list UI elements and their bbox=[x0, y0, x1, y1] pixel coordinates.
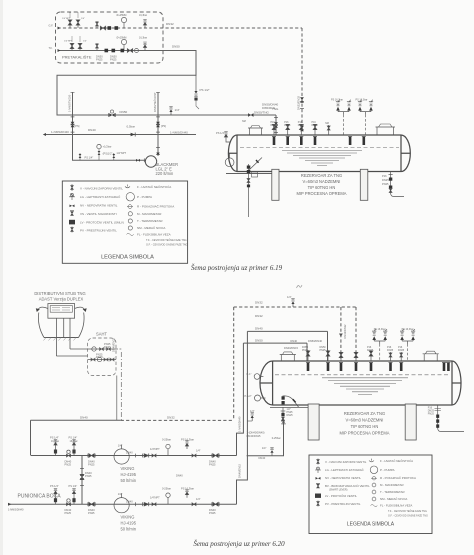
svg-text:(PS)1/2": (PS)1/2" bbox=[103, 152, 113, 156]
svg-text:1/4": 1/4" bbox=[262, 446, 267, 450]
svg-text:0-25bar: 0-25bar bbox=[162, 438, 171, 442]
svg-text:PS 1/4": PS 1/4" bbox=[85, 156, 94, 160]
svg-text:PS 1/4": PS 1/4" bbox=[69, 436, 78, 440]
svg-text:NM: NM bbox=[325, 122, 329, 125]
svg-text:Šema postrojenja uz primer 6.1: Šema postrojenja uz primer 6.19 bbox=[191, 264, 283, 272]
svg-text:VIKING: VIKING bbox=[121, 466, 135, 471]
svg-text:1-NMS/DN40: 1-NMS/DN40 bbox=[8, 508, 24, 512]
svg-text:DN25: DN25 bbox=[367, 349, 374, 352]
svg-text:PN25: PN25 bbox=[209, 463, 216, 467]
svg-text:PN25: PN25 bbox=[85, 474, 92, 478]
svg-text:DN40/DN32: DN40/DN32 bbox=[112, 337, 116, 352]
svg-text:PS 16,3bar: PS 16,3bar bbox=[181, 438, 194, 442]
svg-text:1-NMS/TNG50: 1-NMS/TNG50 bbox=[68, 94, 72, 112]
svg-text:1/4"NPT: 1/4"NPT bbox=[64, 41, 73, 43]
svg-text:1-NMS/DN40: 1-NMS/DN40 bbox=[170, 131, 188, 135]
svg-text:DN25: DN25 bbox=[382, 178, 389, 182]
svg-text:M - MANOMETAR: M - MANOMETAR bbox=[137, 212, 162, 216]
svg-text:PS 1/4": PS 1/4" bbox=[69, 484, 78, 488]
svg-text:+1/2bar: +1/2bar bbox=[103, 145, 112, 149]
svg-text:PRETAKALIŠTE: PRETAKALIŠTE bbox=[62, 55, 92, 60]
svg-text:1/4": 1/4" bbox=[250, 409, 255, 413]
svg-text:LEGENDA SIMBOLA: LEGENDA SIMBOLA bbox=[101, 254, 154, 260]
svg-text:1-NMS/DN40: 1-NMS/DN40 bbox=[238, 416, 242, 432]
svg-text:DN40: DN40 bbox=[80, 415, 88, 419]
svg-text:DN40/DN15: DN40/DN15 bbox=[284, 346, 299, 350]
svg-text:DN40: DN40 bbox=[255, 327, 263, 331]
svg-text:[PS]: [PS] bbox=[161, 124, 166, 128]
svg-text:PS 16,3bar: PS 16,3bar bbox=[356, 99, 368, 102]
svg-text:(SMART LEVER): (SMART LEVER) bbox=[329, 488, 348, 491]
svg-text:16,3bar: 16,3bar bbox=[139, 14, 147, 17]
svg-text:50 lt/min: 50 lt/min bbox=[121, 527, 137, 532]
svg-text:NV - NEPOVRATNI VENTIL: NV - NEPOVRATNI VENTIL bbox=[80, 203, 118, 207]
svg-text:NV - NEPOVRATNI VENTIL: NV - NEPOVRATNI VENTIL bbox=[325, 476, 361, 480]
svg-text:DN25: DN25 bbox=[284, 124, 291, 127]
svg-text:F - HVATAČ NEČISTOĆA: F - HVATAČ NEČISTOĆA bbox=[137, 184, 171, 189]
svg-text:[PS]: [PS] bbox=[75, 124, 80, 128]
svg-text:PV - PRESTRUJNI VENTIL: PV - PRESTRUJNI VENTIL bbox=[325, 502, 361, 506]
svg-text:DN25: DN25 bbox=[287, 414, 294, 417]
svg-text:220 lt/min: 220 lt/min bbox=[156, 171, 174, 176]
svg-text:DN40: DN40 bbox=[290, 339, 297, 343]
svg-text:DN40: DN40 bbox=[126, 451, 133, 455]
svg-text:DN50/DN40: DN50/DN40 bbox=[308, 339, 323, 343]
svg-text:1/4": 1/4" bbox=[196, 449, 201, 453]
svg-text:DN25: DN25 bbox=[96, 355, 103, 359]
svg-text:DN32/DN32: DN32/DN32 bbox=[296, 95, 300, 110]
svg-text:PN25: PN25 bbox=[382, 182, 389, 186]
svg-text:PN25: PN25 bbox=[88, 463, 95, 467]
svg-text:PS 16,3bar: PS 16,3bar bbox=[402, 328, 414, 331]
svg-text:SAHT: SAHT bbox=[96, 332, 107, 337]
svg-text:DN40: DN40 bbox=[88, 128, 96, 132]
svg-text:0,5bar: 0,5bar bbox=[127, 124, 136, 128]
svg-text:P - PUMPA: P - PUMPA bbox=[380, 468, 395, 472]
svg-text:1/4": 1/4" bbox=[118, 443, 123, 447]
svg-text:LEGENDA SIMBOLA: LEGENDA SIMBOLA bbox=[347, 522, 395, 528]
svg-text:DN50: DN50 bbox=[172, 45, 180, 49]
svg-text:1/4": 1/4" bbox=[196, 497, 201, 501]
svg-text:Šema postrojenja uz primer 6.2: Šema postrojenja uz primer 6.20 bbox=[193, 540, 285, 548]
svg-text:DN40: DN40 bbox=[259, 456, 266, 460]
svg-text:HJ-4195: HJ-4195 bbox=[121, 521, 137, 526]
svg-text:PV - PRESTRUJNI VENTIL: PV - PRESTRUJNI VENTIL bbox=[80, 228, 117, 232]
svg-text:DN50/DN40: DN50/DN40 bbox=[262, 107, 276, 110]
svg-text:DISTRIBUTIVNI STUB TNG: DISTRIBUTIVNI STUB TNG bbox=[34, 291, 85, 296]
svg-text:DN32: DN32 bbox=[166, 22, 174, 26]
svg-text:16,3bar: 16,3bar bbox=[51, 440, 59, 443]
svg-text:1/4"NPT: 1/4"NPT bbox=[150, 496, 160, 500]
svg-text:DN40/DN15: DN40/DN15 bbox=[238, 463, 242, 478]
svg-text:MIP PROCESNA OPREMA: MIP PROCESNA OPREMA bbox=[340, 431, 390, 436]
svg-text:PS 16,3bar: PS 16,3bar bbox=[374, 328, 386, 331]
svg-text:PS 1/4": PS 1/4" bbox=[50, 436, 59, 440]
svg-text:P - PUMPA: P - PUMPA bbox=[137, 195, 152, 199]
svg-text:DN50: DN50 bbox=[255, 338, 263, 342]
svg-text:DN32: DN32 bbox=[255, 301, 263, 305]
svg-text:PN25: PN25 bbox=[302, 349, 309, 352]
svg-text:DN50/TNG: DN50/TNG bbox=[254, 111, 270, 115]
svg-text:NM - MERAČ NIVOA: NM - MERAČ NIVOA bbox=[137, 225, 165, 230]
svg-text:DN40: DN40 bbox=[126, 499, 133, 503]
svg-text:G.F. - CEVOVOD GASNE FAZE TNG: G.F. - CEVOVOD GASNE FAZE TNG bbox=[146, 244, 188, 247]
svg-text:DN50/DN40: DN50/DN40 bbox=[262, 103, 279, 107]
svg-text:Ø+25MM: Ø+25MM bbox=[117, 37, 127, 40]
svg-text:LG - LEPTIRASTI ZATVARAČ: LG - LEPTIRASTI ZATVARAČ bbox=[325, 467, 364, 472]
svg-text:PN25: PN25 bbox=[110, 58, 117, 62]
svg-text:DN32/DN32: DN32/DN32 bbox=[343, 324, 347, 339]
svg-text:V - NAVOJNI ZAPORNI VENTIL: V - NAVOJNI ZAPORNI VENTIL bbox=[80, 186, 123, 190]
svg-text:PN25: PN25 bbox=[65, 511, 72, 515]
svg-text:DN25: DN25 bbox=[298, 124, 305, 127]
svg-text:MIP PROCESNA OPREMA: MIP PROCESNA OPREMA bbox=[297, 191, 347, 196]
svg-text:T - TERMOMETAR: T - TERMOMETAR bbox=[137, 219, 163, 223]
svg-text:R - POKAZIVAČ PROTOKA: R - POKAZIVAČ PROTOKA bbox=[137, 204, 174, 209]
svg-text:TIP 60TNG HN: TIP 60TNG HN bbox=[351, 424, 379, 429]
svg-text:T.F. - CEVOVOD TEČNE FAZE TNG: T.F. - CEVOVOD TEČNE FAZE TNG bbox=[146, 239, 187, 242]
svg-text:PS 16,3bar: PS 16,3bar bbox=[331, 99, 343, 102]
svg-text:PS 1/4": PS 1/4" bbox=[216, 131, 225, 135]
svg-text:TIP 60TNG HN: TIP 60TNG HN bbox=[308, 185, 336, 190]
svg-text:HJ-4195: HJ-4195 bbox=[121, 472, 137, 477]
svg-text:50 lt/min: 50 lt/min bbox=[121, 478, 137, 483]
svg-text:NM - MERAČ NIVOA: NM - MERAČ NIVOA bbox=[380, 496, 407, 501]
svg-text:1/4": 1/4" bbox=[175, 108, 180, 112]
svg-text:PN25: PN25 bbox=[209, 511, 216, 515]
svg-text:PS 1/2": PS 1/2" bbox=[200, 88, 210, 92]
svg-text:V=60m3 NADZEMNI: V=60m3 NADZEMNI bbox=[303, 179, 341, 184]
svg-text:1/4": 1/4" bbox=[81, 18, 85, 20]
svg-text:PN25: PN25 bbox=[96, 58, 103, 62]
svg-text:DN25: DN25 bbox=[387, 349, 394, 352]
svg-text:R - POKAZIVAČ PROTOKA: R - POKAZIVAČ PROTOKA bbox=[380, 475, 416, 480]
svg-text:0-25bar: 0-25bar bbox=[162, 487, 171, 491]
svg-text:ADAST Verzija DUPLEX: ADAST Verzija DUPLEX bbox=[39, 296, 84, 301]
svg-text:M - MANOMETAR: M - MANOMETAR bbox=[380, 483, 404, 487]
svg-text:DN40: DN40 bbox=[176, 474, 183, 478]
svg-text:PS 1/4": PS 1/4" bbox=[50, 484, 59, 488]
svg-text:PN25: PN25 bbox=[88, 511, 95, 515]
svg-text:VIKING: VIKING bbox=[121, 515, 135, 520]
svg-text:1-(DN40/DN40): 1-(DN40/DN40) bbox=[247, 431, 265, 435]
svg-text:1-NMS/DN40: 1-NMS/DN40 bbox=[51, 130, 69, 134]
svg-text:LV - PROTOČNI VENTIL (SMLV): LV - PROTOČNI VENTIL (SMLV) bbox=[80, 219, 124, 224]
svg-text:T - TERMOMETAR: T - TERMOMETAR bbox=[380, 490, 405, 494]
svg-text:16,3bar: 16,3bar bbox=[139, 37, 147, 40]
svg-text:DN32: DN32 bbox=[167, 416, 175, 420]
svg-text:PS 16,3bar: PS 16,3bar bbox=[181, 487, 194, 491]
svg-text:G.F.: G.F. bbox=[49, 24, 54, 28]
svg-text:P-1": P-1" bbox=[247, 372, 252, 376]
svg-text:PN25: PN25 bbox=[320, 349, 327, 352]
svg-text:Ø+25MM: Ø+25MM bbox=[117, 14, 127, 17]
svg-text:G.F. - CEVOVOD GASNE FAZE TNG: G.F. - CEVOVOD GASNE FAZE TNG bbox=[388, 514, 428, 517]
svg-text:PN25: PN25 bbox=[65, 463, 72, 467]
svg-text:P-1/2": P-1/2" bbox=[245, 394, 252, 398]
svg-text:1/4"NPT: 1/4"NPT bbox=[116, 151, 126, 155]
svg-text:16,3bar: 16,3bar bbox=[70, 440, 78, 443]
svg-text:P16: P16 bbox=[382, 174, 387, 178]
svg-text:1/4": 1/4" bbox=[118, 492, 123, 496]
svg-text:BV - BRZOZATVARAJUĆI VENTIL: BV - BRZOZATVARAJUĆI VENTIL bbox=[325, 483, 370, 488]
svg-text:DN50: DN50 bbox=[271, 124, 278, 127]
svg-text:DN25: DN25 bbox=[104, 345, 111, 349]
svg-text:F - HVATAČ NEČISTOĆA: F - HVATAČ NEČISTOĆA bbox=[380, 458, 413, 463]
svg-text:NM: NM bbox=[242, 120, 246, 123]
svg-text:LV - PROTOČNI VENTIL: LV - PROTOČNI VENTIL bbox=[325, 493, 357, 498]
svg-text:DN40/DN15: DN40/DN15 bbox=[247, 434, 262, 438]
svg-text:PN25: PN25 bbox=[428, 412, 435, 415]
svg-text:0-25bar: 0-25bar bbox=[272, 436, 281, 440]
svg-text:REZERVOAR ZA TNG: REZERVOAR ZA TNG bbox=[301, 173, 342, 178]
svg-text:T.F.: T.F. bbox=[49, 46, 53, 50]
svg-text:V - NAVOJNI ZAPORNI VENTIL: V - NAVOJNI ZAPORNI VENTIL bbox=[325, 460, 367, 464]
svg-text:DN50: DN50 bbox=[120, 110, 128, 114]
svg-text:1/4"NPT: 1/4"NPT bbox=[150, 447, 160, 451]
svg-text:DN25: DN25 bbox=[312, 124, 319, 127]
svg-text:DN25: DN25 bbox=[398, 349, 405, 352]
svg-text:REZERVOAR ZA TNG: REZERVOAR ZA TNG bbox=[344, 411, 385, 416]
svg-text:FL - FLEKSIBILNA VEZA: FL - FLEKSIBILNA VEZA bbox=[380, 504, 412, 508]
svg-text:T.F. - CEVOVOD TEČNE FAZE TNG: T.F. - CEVOVOD TEČNE FAZE TNG bbox=[388, 510, 427, 513]
svg-text:1/4": 1/4" bbox=[83, 41, 87, 43]
svg-text:FL - FLEKSIBILNA VEZA: FL - FLEKSIBILNA VEZA bbox=[137, 232, 171, 236]
svg-text:V=60m3 NADZEMNI: V=60m3 NADZEMNI bbox=[346, 418, 384, 423]
svg-text:1/4": 1/4" bbox=[287, 295, 292, 299]
svg-text:DN32: DN32 bbox=[255, 314, 263, 318]
svg-text:1/4"NPT: 1/4"NPT bbox=[62, 18, 71, 20]
svg-text:VS - VENTIL SIGURNOSTI: VS - VENTIL SIGURNOSTI bbox=[80, 212, 117, 216]
svg-text:LG - LEPTIRASTI ZATVARAČ: LG - LEPTIRASTI ZATVARAČ bbox=[80, 194, 121, 199]
